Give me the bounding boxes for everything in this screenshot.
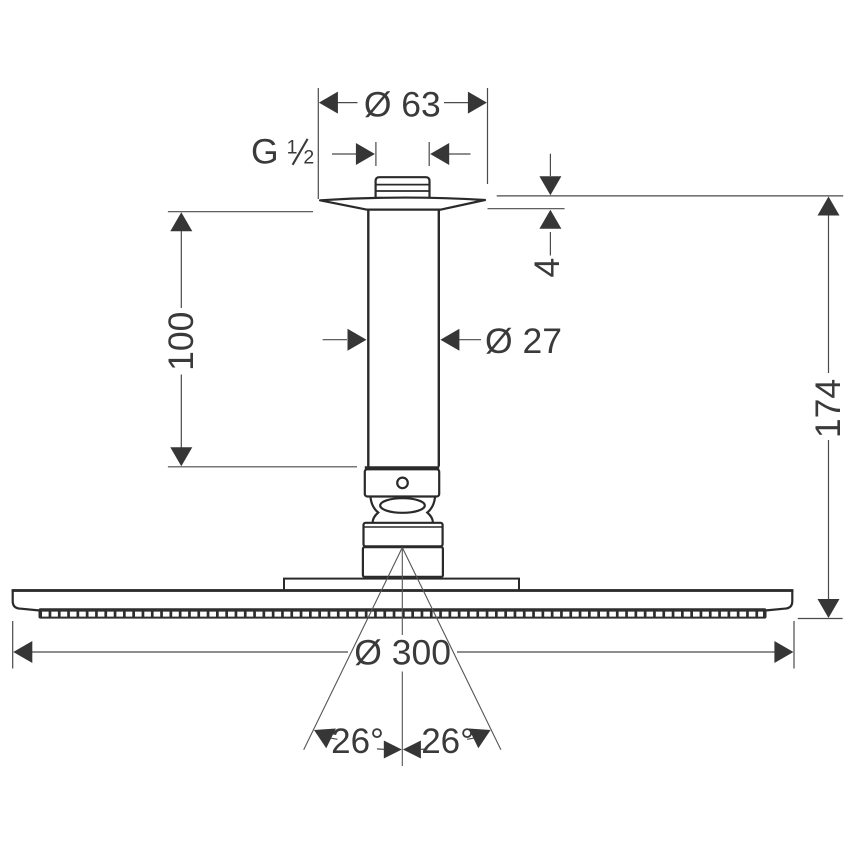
dimension 174 line upper segment [828,215,830,373]
connector pipe left wall [367,210,369,466]
angle 26 left outer arrowhead [309,720,336,748]
dimension 100 bottom extension line [168,466,357,468]
angle 26 right outer tail [467,738,474,739]
angle 26 left inner arrowhead [384,741,402,759]
angle 26 right outer arrowhead [469,720,496,748]
head connector cylinder seam [364,526,443,528]
spray cone left boundary line [304,548,403,750]
ball joint neck left profile [371,498,379,523]
dimension G1/2 left leader [332,153,356,155]
dimension D27 right arrowhead [440,329,459,351]
dimension 4 lower leader [549,232,551,256]
dimension 174 line lower segment [828,440,830,599]
collar screw hole [397,478,408,489]
dimension 100 up arrowhead [170,212,192,231]
shower head body [13,591,793,611]
dimension G1/2 left arrowhead [356,143,375,165]
angle 26 left inner tail [377,748,384,751]
spray cone centre line upper segment [401,548,403,636]
dimension D63 left extension line [317,88,319,199]
dimension D63 left arrowhead [319,92,338,114]
ceiling escutcheon plate [320,198,485,210]
head connector cylinder [364,523,443,547]
pipe end cap line [365,466,439,469]
dimension D63 right extension line [487,88,489,184]
dimension D27 left leader [323,339,347,341]
dimension D63 right arrowhead [468,92,487,114]
ceiling reference line [497,195,844,197]
svg-text:Ø 300: Ø 300 [354,632,451,672]
angle 26 left outer tail [331,738,338,739]
label 1/2 fraction slash [293,139,308,165]
dimension 4 upper leader [549,154,551,176]
dimension D300 line left segment [32,651,348,653]
dimension G1/2 right leader [449,153,471,155]
head mounting step plate [284,579,519,591]
dimension 4 down arrowhead [539,176,561,195]
dimension D300 left arrowhead [13,641,32,663]
dimension 100 line lower segment [180,375,182,448]
dimension D63 line left segment [338,102,358,104]
dimension D300 right arrowhead [774,641,793,663]
angle 26 right inner tail [421,748,428,751]
dimension D300 right extension line [793,621,795,669]
dimension 4 up arrowhead [539,210,561,229]
dimension 174 up arrowhead [818,197,840,216]
dimension 174 down arrowhead [818,599,840,618]
dimension G1/2 right tick [428,142,430,166]
svg-text:4: 4 [527,258,567,278]
collar housing [365,469,439,496]
svg-text:1: 1 [287,136,298,158]
angle 26 right inner arrowhead [403,741,421,759]
svg-text:2: 2 [303,147,314,169]
ball joint sphere [380,498,425,513]
dimension 100 top extension line [168,211,313,213]
dimension G1/2 right arrowhead [430,143,449,165]
shower head top face line [12,589,794,592]
svg-text:100: 100 [161,312,201,371]
svg-text:26°: 26° [421,722,474,761]
dimension 100 line upper segment [180,231,182,308]
dimension 4 plate reference line [488,208,565,210]
svg-text:Ø 63: Ø 63 [364,84,441,124]
connector pipe right wall [438,210,440,466]
spray cone right boundary line [402,548,501,750]
dimension D27 left arrowhead [348,329,367,351]
svg-text:26°: 26° [331,722,384,761]
nozzle slots [42,612,763,617]
G1/2 threaded inlet fitting [376,177,430,199]
dimension D63 line right segment [444,102,468,104]
dimension 174 bottom reference line [798,618,843,620]
dimension D27 right leader [459,339,482,341]
ball joint neck right profile [427,498,435,523]
dimension G1/2 left tick [375,142,377,166]
dimension D300 left extension line [12,621,14,669]
dimension D300 line right segment [457,651,775,653]
svg-text:174: 174 [808,379,848,438]
head connector block [363,547,443,577]
svg-text:G: G [251,131,279,171]
svg-text:Ø 27: Ø 27 [485,321,562,361]
spray cone centre line lower segment [401,672,403,767]
dimension 100 down arrowhead [170,447,192,466]
spray nozzle band [39,608,767,618]
